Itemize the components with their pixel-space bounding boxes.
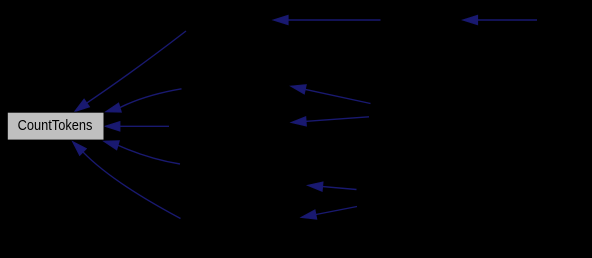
edge arrow mid-upper (node5 to node4)	[290, 85, 371, 104]
edge arrow top-left (node2 to node1)	[273, 15, 381, 25]
svg-text:CountTokens: CountTokens	[18, 117, 93, 134]
edge curve node8 to CountTokens (bottom)	[72, 141, 181, 219]
edge node6 to CountTokens (middle)	[104, 121, 169, 131]
edge node4 to CountTokens (upper)	[105, 89, 182, 113]
edge node7 to CountTokens (lower)	[103, 141, 180, 164]
node CountTokens (current function, highlighted)	[7, 112, 104, 140]
edge arrow bottom-upper (node9 to node7)	[307, 182, 357, 192]
edge curve node1 to CountTokens (top)	[74, 31, 186, 112]
edge arrow mid-lower (node5 to node6)	[291, 116, 370, 126]
edge arrow bottom-lower (node9 to node8)	[301, 207, 358, 220]
edge arrow top-right (node3 to node2)	[462, 15, 537, 25]
